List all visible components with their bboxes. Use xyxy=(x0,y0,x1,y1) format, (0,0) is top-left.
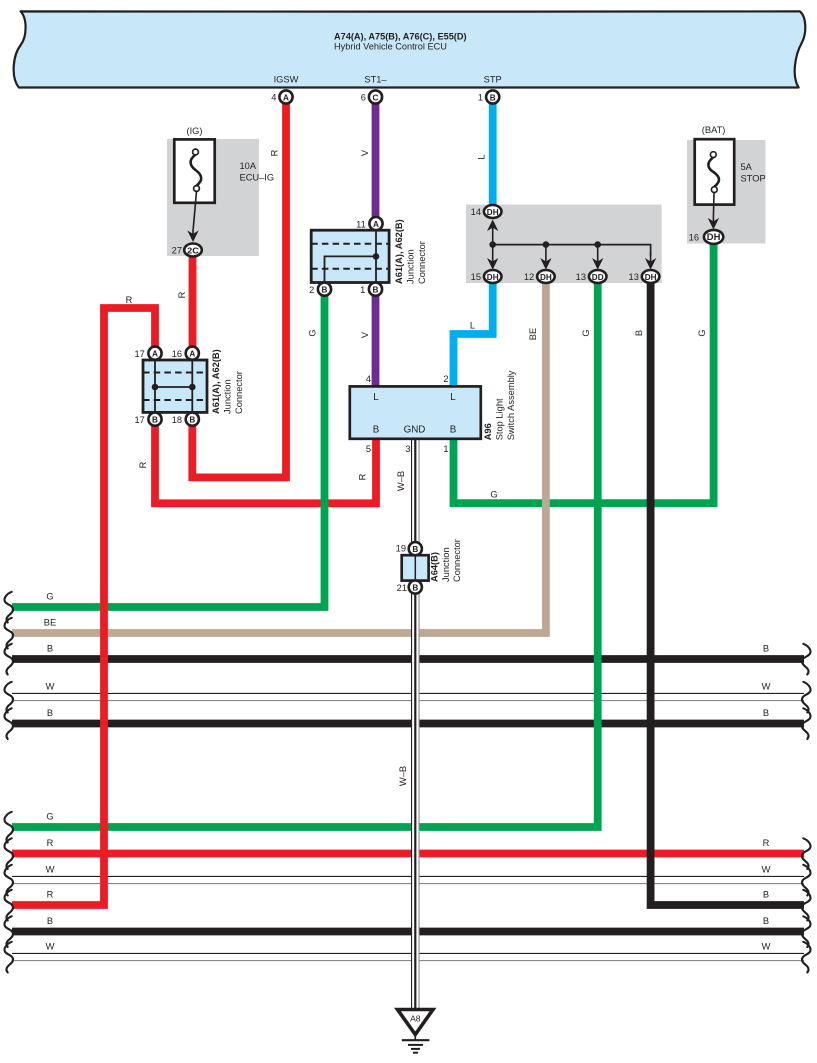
svg-text:Connector: Connector xyxy=(452,539,462,582)
svg-text:BE: BE xyxy=(528,328,538,340)
svg-text:R: R xyxy=(138,461,148,468)
terminal oval 13 DD xyxy=(589,270,607,283)
svg-text:V: V xyxy=(360,149,370,156)
break mark left W y=697 xyxy=(5,682,14,713)
svg-text:Switch Assembly: Switch Assembly xyxy=(506,370,516,440)
svg-text:B: B xyxy=(47,644,53,654)
svg-text:W: W xyxy=(46,865,55,875)
ground stem and hatches xyxy=(414,1035,416,1041)
relay/junction block gray panel xyxy=(466,205,662,283)
svg-text:B: B xyxy=(47,708,53,718)
svg-text:L: L xyxy=(477,154,487,159)
terminal oval 12 DH xyxy=(537,270,555,283)
junction dot at 12 DH column xyxy=(543,241,550,248)
svg-text:17: 17 xyxy=(134,349,144,359)
svg-text:B: B xyxy=(763,916,769,926)
svg-text:B: B xyxy=(763,644,769,654)
junction dot at 14/15 DH column xyxy=(489,241,496,248)
svg-text:ECU–IG: ECU–IG xyxy=(240,172,275,182)
svg-text:STOP: STOP xyxy=(741,173,766,183)
svg-text:10A: 10A xyxy=(240,161,257,171)
svg-text:A8: A8 xyxy=(410,1013,421,1023)
pin 18 B xyxy=(186,413,199,426)
pin 1 B of junction connector xyxy=(369,283,382,296)
terminal oval 16 DH xyxy=(704,230,723,244)
break mark left W y=880 xyxy=(5,865,14,896)
wire BE from junction block pin 12 to left edge xyxy=(12,283,546,633)
svg-text:A: A xyxy=(152,350,158,359)
svg-text:A: A xyxy=(373,220,379,229)
svg-text:1: 1 xyxy=(478,93,483,103)
terminal oval 2C xyxy=(184,244,202,257)
svg-text:G: G xyxy=(46,812,53,822)
svg-text:18: 18 xyxy=(172,415,182,425)
svg-text:STP: STP xyxy=(484,75,502,85)
svg-text:(BAT): (BAT) xyxy=(702,125,726,135)
svg-text:A74(A), A75(B), A76(C), E55(D): A74(A), A75(B), A76(C), E55(D) xyxy=(334,32,467,42)
svg-text:2C: 2C xyxy=(187,245,199,255)
svg-text:W: W xyxy=(762,942,771,952)
fuse 5A STOP xyxy=(695,139,735,204)
junction block internal bus xyxy=(493,245,651,256)
terminal oval 15 DH xyxy=(484,270,502,283)
wire G from junction connector pin 2 to left edge xyxy=(12,296,325,607)
ECU banner A74(A), A75(B), A76(C), E55(D) Hybrid Vehicle Control ECU xyxy=(14,11,806,87)
lead from fuse to terminal 16 DH xyxy=(712,193,715,218)
svg-text:5: 5 xyxy=(366,444,371,454)
svg-text:16: 16 xyxy=(689,233,699,243)
svg-text:Junction: Junction xyxy=(441,547,451,582)
wire R from ECU IGSW pin 4 to junction connector pin 18 xyxy=(192,104,286,478)
svg-text:(IG): (IG) xyxy=(186,126,202,136)
svg-text:27: 27 xyxy=(172,246,182,256)
arrow down into 13 DD xyxy=(592,245,603,270)
ground A8 triangle xyxy=(398,1010,434,1035)
break mark left W y=957 xyxy=(5,942,14,973)
break mark right B y=659 xyxy=(802,644,811,675)
arrow into terminal 2C xyxy=(187,229,198,242)
svg-text:B: B xyxy=(152,416,158,425)
svg-text:R: R xyxy=(358,473,368,480)
svg-text:1: 1 xyxy=(360,285,365,295)
ECU pin 4 A (IGSW) xyxy=(279,90,292,103)
pin 21 B xyxy=(409,581,422,594)
svg-text:DH: DH xyxy=(645,272,657,282)
svg-text:11: 11 xyxy=(356,219,366,229)
svg-text:BE: BE xyxy=(44,618,56,628)
wire G from junction block pin 13 DD to left edge xyxy=(12,283,598,827)
arrow into terminal 16 DH xyxy=(708,217,719,230)
svg-text:4: 4 xyxy=(366,374,371,384)
internal links xyxy=(325,230,377,282)
svg-text:W–B: W–B xyxy=(398,766,408,786)
stop light switch assembly A96 box xyxy=(350,386,481,438)
break mark right B y=931.5 xyxy=(802,916,811,947)
lead from fuse to terminal 2C xyxy=(193,191,196,229)
break mark left G y=827 xyxy=(5,812,14,843)
svg-text:B: B xyxy=(412,584,418,593)
svg-text:R: R xyxy=(47,838,54,848)
ECU pin 6 C (ST1-) xyxy=(369,90,382,103)
divider xyxy=(414,555,416,580)
svg-text:DH: DH xyxy=(487,207,499,217)
break mark right B y=905 xyxy=(802,890,811,921)
svg-text:G: G xyxy=(308,329,318,336)
svg-text:A: A xyxy=(189,350,195,359)
wire R from junction connector pin 17B to stop light switch pin 5 xyxy=(155,425,376,503)
svg-text:Connector: Connector xyxy=(234,371,244,414)
pin 2 B of junction connector xyxy=(318,283,331,296)
svg-text:B: B xyxy=(373,425,380,436)
pin 11 A of junction connector xyxy=(369,217,382,230)
svg-text:17: 17 xyxy=(134,415,144,425)
svg-text:W: W xyxy=(46,682,55,692)
svg-text:G: G xyxy=(490,489,497,499)
svg-text:W: W xyxy=(762,865,771,875)
wire B from junction block pin 13 DH to right edge xyxy=(651,283,804,905)
pin 16 A xyxy=(186,347,199,360)
arrow down into 15 DH xyxy=(487,245,498,270)
svg-text:W: W xyxy=(46,942,55,952)
svg-text:C: C xyxy=(373,93,379,102)
arrow up into 14 DH xyxy=(487,220,498,245)
break mark left G y=607 xyxy=(5,592,14,623)
wire R from fuse 2C to junction connector pin 16 xyxy=(189,257,197,347)
junction connector A61(A), A62(B) upper box xyxy=(311,230,389,282)
wire B bus 1 (y=659) xyxy=(12,655,804,663)
wire L from junction block pin 15 DH to stop light switch pin 2 xyxy=(454,283,493,387)
svg-text:14: 14 xyxy=(471,207,481,217)
break mark left B y=659 xyxy=(5,644,14,675)
svg-text:L: L xyxy=(450,392,456,403)
wire W bus 3 (y=957) xyxy=(12,953,804,960)
svg-text:V: V xyxy=(360,331,370,338)
wire R bus (y=853.5) xyxy=(12,850,804,858)
svg-text:B: B xyxy=(490,93,496,102)
svg-text:G: G xyxy=(581,329,591,336)
terminal oval 14 DH xyxy=(484,205,502,218)
svg-text:Hybrid Vehicle Control ECU: Hybrid Vehicle Control ECU xyxy=(334,41,447,51)
internal links xyxy=(155,360,192,412)
svg-text:A96: A96 xyxy=(483,423,493,440)
svg-text:12: 12 xyxy=(524,272,534,282)
svg-text:G: G xyxy=(697,329,707,336)
fuse 10A ECU-IG xyxy=(174,139,214,202)
svg-text:DH: DH xyxy=(540,272,552,282)
svg-text:W–B: W–B xyxy=(396,471,406,491)
svg-text:R: R xyxy=(47,890,54,900)
svg-text:GND: GND xyxy=(404,425,426,436)
svg-text:13: 13 xyxy=(629,272,639,282)
svg-text:Junction: Junction xyxy=(406,249,416,284)
(IG) fuse holder gray panel xyxy=(167,139,259,256)
wire L from ECU STP pin 1 to junction block pin 14 DH xyxy=(489,104,497,206)
fuse element 5A STOP xyxy=(708,152,719,193)
wire V from junction connector pin 1 to stop light switch pin 4 xyxy=(372,296,380,387)
svg-text:2: 2 xyxy=(309,285,314,295)
svg-text:A64(B): A64(B) xyxy=(430,552,440,582)
wire B bus 2 (y=723.5) xyxy=(12,720,804,728)
svg-text:IGSW: IGSW xyxy=(274,75,299,85)
svg-text:4: 4 xyxy=(271,93,276,103)
fuse element 10A ECU-IG xyxy=(191,149,202,191)
svg-text:A61(A), A62(B): A61(A), A62(B) xyxy=(394,219,404,284)
break mark right W y=957 xyxy=(802,942,811,973)
wire W bus 1 (y=697) xyxy=(12,693,804,700)
svg-text:Stop Light: Stop Light xyxy=(495,398,505,440)
svg-text:B: B xyxy=(763,708,769,718)
svg-text:B: B xyxy=(412,545,418,554)
break mark right W y=697 xyxy=(802,682,811,713)
svg-text:R: R xyxy=(270,149,280,156)
ECU pin 1 B (STP) xyxy=(486,90,499,103)
svg-text:3: 3 xyxy=(405,444,410,454)
svg-text:A: A xyxy=(283,93,289,102)
(BAT) fuse holder gray panel xyxy=(687,140,765,244)
svg-text:5A: 5A xyxy=(741,162,753,172)
svg-text:L: L xyxy=(373,392,379,403)
svg-text:ST1–: ST1– xyxy=(364,75,387,85)
junction connector A61(A), A62(B) left box xyxy=(143,360,207,412)
wire V from ECU ST1- pin 6 to junction connector pin 11 xyxy=(372,104,380,218)
svg-text:13: 13 xyxy=(576,272,586,282)
svg-text:15: 15 xyxy=(471,272,481,282)
svg-text:19: 19 xyxy=(396,544,406,554)
junction connector A64(B) box xyxy=(402,555,429,580)
arrow down into 12 DH xyxy=(540,245,551,270)
break mark left BE y=633 xyxy=(5,618,14,649)
junction dot at 13 DD column xyxy=(594,241,601,248)
wire R from left edge to junction connector pin 17A xyxy=(12,308,155,905)
break mark right R y=853.5 xyxy=(802,838,811,869)
terminal oval 13 DH xyxy=(642,270,660,283)
pin 17 A xyxy=(148,347,161,360)
pin 19 B xyxy=(409,542,422,555)
break mark right W y=880 xyxy=(802,865,811,896)
svg-text:G: G xyxy=(46,592,53,602)
svg-text:R: R xyxy=(126,295,133,305)
svg-text:B: B xyxy=(763,890,769,900)
break mark left B y=931.5 xyxy=(5,916,14,947)
wire W-B from stop light switch GND pin 3 to ground A8 xyxy=(412,439,420,1010)
svg-text:6: 6 xyxy=(361,93,366,103)
svg-text:Connector: Connector xyxy=(417,241,427,284)
svg-text:Junction: Junction xyxy=(223,379,233,414)
svg-text:B: B xyxy=(634,330,644,336)
break mark right B y=723.5 xyxy=(802,708,811,739)
svg-text:B: B xyxy=(373,286,379,295)
svg-text:B: B xyxy=(189,416,195,425)
wire W bus 2 (y=880) xyxy=(12,876,804,883)
break mark left R y=905 xyxy=(5,890,14,921)
arrow down into 13 DH xyxy=(645,252,656,270)
svg-text:21: 21 xyxy=(397,583,407,593)
break mark left B y=723.5 xyxy=(5,708,14,739)
svg-text:16: 16 xyxy=(172,349,182,359)
dashed separators xyxy=(143,373,207,401)
svg-text:DH: DH xyxy=(487,272,499,282)
svg-text:B: B xyxy=(450,425,457,436)
dashed separators xyxy=(311,244,389,269)
svg-text:2: 2 xyxy=(443,374,448,384)
break mark left R y=853.5 xyxy=(5,838,14,869)
svg-text:L: L xyxy=(470,321,475,331)
svg-text:W: W xyxy=(762,682,771,692)
wire G from stop light switch pin 1 to STOP fuse 16 DH xyxy=(454,244,714,503)
svg-text:B: B xyxy=(47,916,53,926)
pin 17 B xyxy=(148,413,161,426)
svg-text:R: R xyxy=(177,291,187,298)
svg-text:1: 1 xyxy=(443,444,448,454)
svg-text:DH: DH xyxy=(707,232,721,242)
wire B bus 3 (y=931.5) xyxy=(12,928,804,936)
svg-text:A61(A), A62(B): A61(A), A62(B) xyxy=(211,349,221,414)
svg-text:B: B xyxy=(322,286,328,295)
svg-text:DD: DD xyxy=(592,272,604,282)
svg-text:R: R xyxy=(763,838,770,848)
